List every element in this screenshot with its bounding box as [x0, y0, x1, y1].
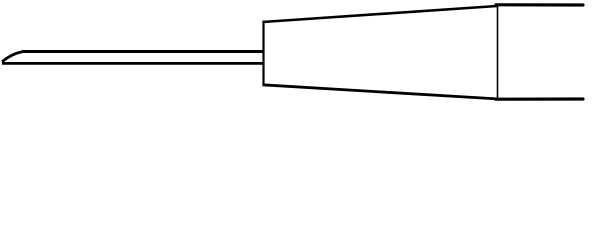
handle top tapered edge: [263, 6, 498, 22]
blade tip bevel: [2, 52, 23, 62]
screwdriver line drawing: [0, 0, 608, 112]
handle ferrule left vertical edge: [262, 21, 264, 86]
blade bottom edge: [2, 62, 264, 65]
handle bottom tapered edge: [263, 85, 498, 99]
handle butt top edge: [496, 3, 583, 6]
handle butt bottom edge: [496, 97, 583, 100]
blade top edge: [22, 50, 264, 53]
handle butt divider vertical line: [497, 5, 499, 100]
